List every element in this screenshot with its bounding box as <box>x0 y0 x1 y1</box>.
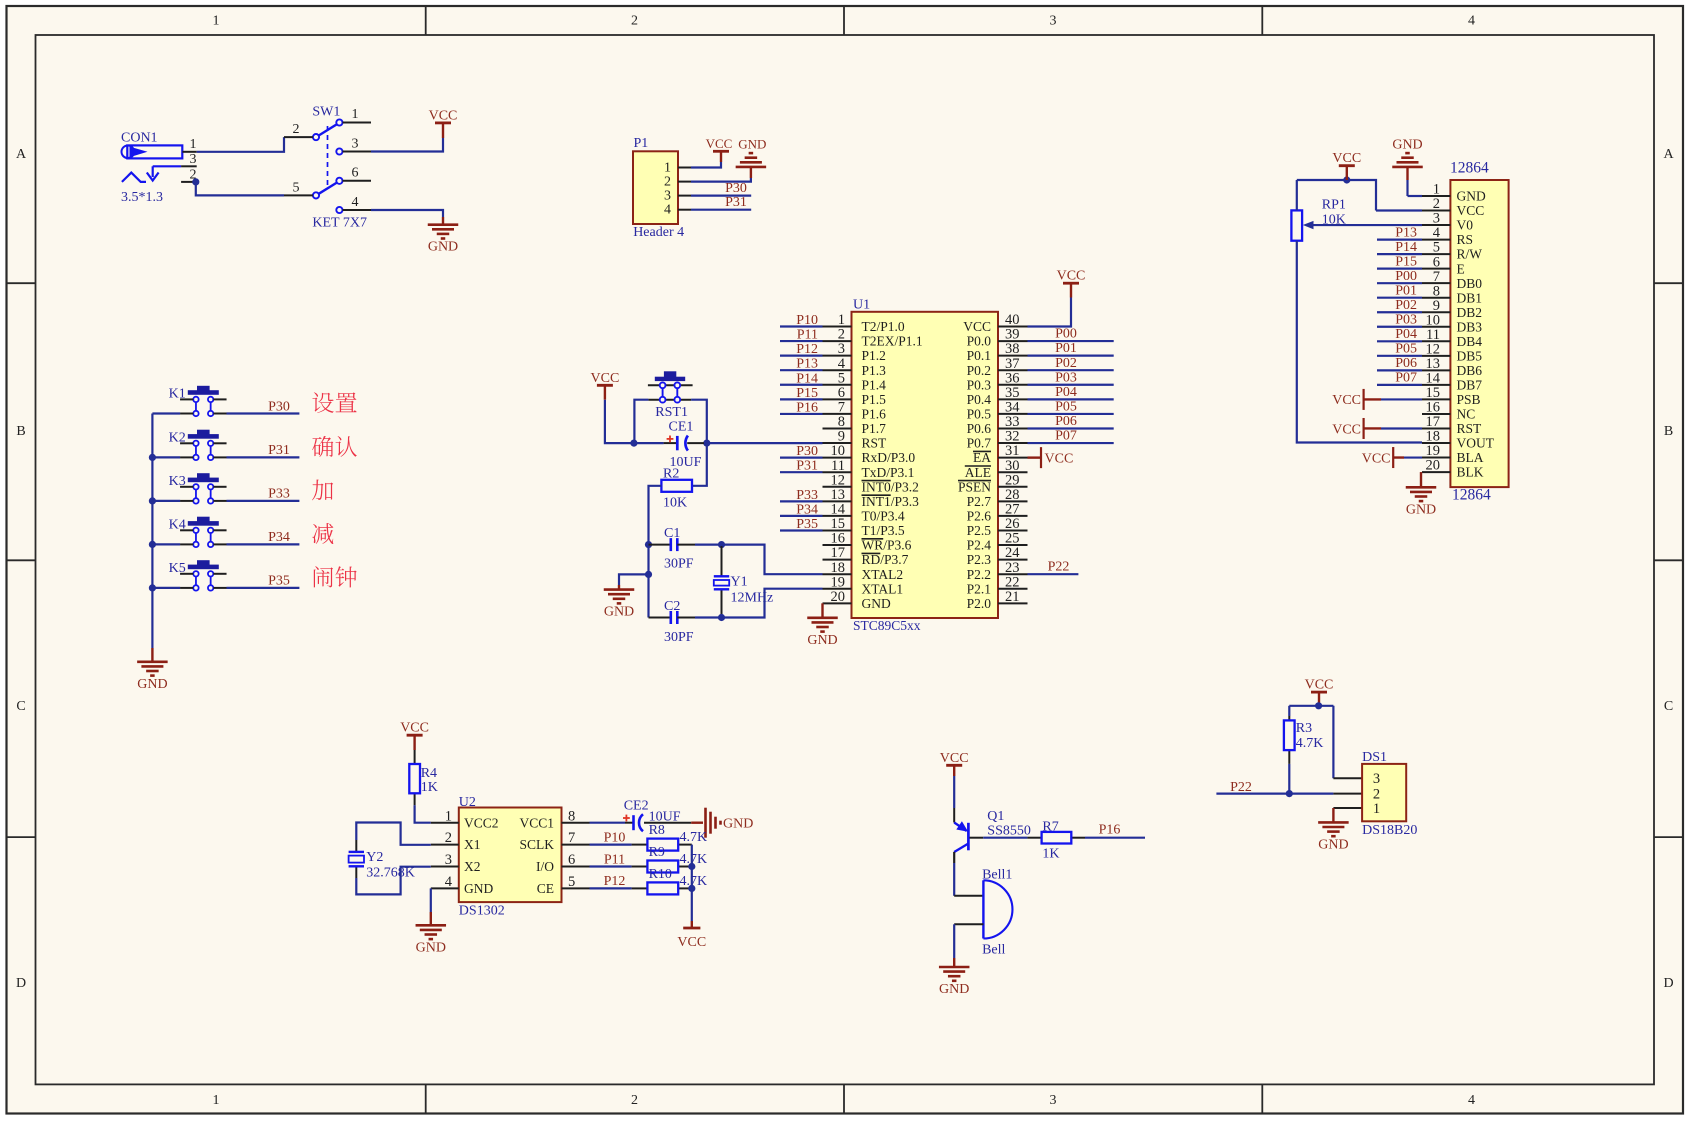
svg-text:SW1: SW1 <box>312 104 340 119</box>
Q1 collector wire <box>954 852 983 896</box>
12864 pin 14 DB7 <box>1422 370 1482 392</box>
wire K3 to ground bus <box>152 500 180 502</box>
svg-text:1K: 1K <box>421 780 438 795</box>
svg-text:2: 2 <box>664 175 671 190</box>
resistor R9 pins <box>632 866 692 868</box>
svg-text:P1.6: P1.6 <box>862 407 887 422</box>
svg-text:P04: P04 <box>1055 385 1077 400</box>
wire CON1 pin1 to SW1 pin2 <box>197 137 284 152</box>
svg-text:P10: P10 <box>604 830 626 845</box>
svg-text:1: 1 <box>1373 801 1380 817</box>
svg-text:3: 3 <box>445 852 452 868</box>
button K1 tact switch <box>180 386 227 416</box>
U1 pin 22 P2.1 <box>967 574 1028 596</box>
svg-text:GND: GND <box>862 596 891 611</box>
12864 pin 17 RST <box>1422 414 1482 436</box>
svg-text:Bell: Bell <box>982 943 1005 958</box>
wire P1 pin3 net P30 <box>691 195 751 197</box>
potentiometer RP1 10K body <box>1291 210 1302 240</box>
U1 pin 26 P2.5 <box>967 516 1028 538</box>
svg-text:20: 20 <box>831 589 846 605</box>
12864 pin 10 DB3 <box>1422 312 1482 334</box>
wire U1 pin 4 net P13 <box>780 369 823 371</box>
svg-text:P00: P00 <box>1395 269 1417 284</box>
function label 确认 (red) <box>312 436 357 457</box>
svg-text:P06: P06 <box>1055 414 1077 429</box>
svg-text:INT0/P3.2: INT0/P3.2 <box>862 479 919 494</box>
svg-text:12864: 12864 <box>1450 160 1489 177</box>
ground GND at 12864 pin 20 <box>1406 487 1437 517</box>
svg-text:P07: P07 <box>1395 371 1417 386</box>
svg-text:PSEN: PSEN <box>958 479 991 494</box>
svg-text:VCC1: VCC1 <box>519 815 554 830</box>
U1 pin 13 INT1/P3.3 <box>823 487 920 509</box>
junction XTAL1 node <box>718 614 725 621</box>
U1 pin 24 P2.3 <box>967 545 1028 567</box>
wire U2 net P11 to R9 <box>590 865 632 867</box>
U1 pin 6 P1.5 <box>823 385 887 407</box>
svg-text:P12: P12 <box>796 342 818 357</box>
svg-text:X1: X1 <box>464 837 481 852</box>
resistor R4 1K <box>409 764 420 793</box>
svg-text:T2EX/P1.1: T2EX/P1.1 <box>862 334 923 349</box>
svg-text:P03: P03 <box>1395 313 1417 328</box>
svg-text:T1/P3.5: T1/P3.5 <box>862 523 905 538</box>
wire 12864 pin 4 net P13 <box>1377 238 1422 240</box>
junction key ground bus <box>149 584 156 591</box>
connector 12864 LCD body <box>1450 180 1508 487</box>
wire XTAL2 node to U1 pin 18 <box>722 545 823 575</box>
SW1 pin 6 <box>343 166 372 181</box>
power VCC at RST1 <box>591 371 620 400</box>
U1 pin 5 P1.4 <box>823 370 887 392</box>
junction key ground bus <box>149 497 156 504</box>
svg-text:P12: P12 <box>604 874 626 889</box>
svg-text:P31: P31 <box>796 459 818 474</box>
svg-text:1: 1 <box>190 137 197 152</box>
wire K4 net P34 <box>227 543 300 545</box>
wire SW1 pin3 to VCC <box>371 138 443 152</box>
svg-text:VCC: VCC <box>1305 678 1334 693</box>
svg-text:ALE: ALE <box>965 465 991 480</box>
svg-text:P05: P05 <box>1395 342 1417 357</box>
ground GND at Bell1 <box>939 958 970 997</box>
button K2 tact switch <box>180 430 227 460</box>
svg-text:6: 6 <box>352 166 359 181</box>
resistor R10 pins <box>632 887 692 889</box>
svg-text:GND: GND <box>738 136 766 151</box>
svg-text:P2.6: P2.6 <box>967 509 992 524</box>
wire K2 to ground bus <box>152 456 180 458</box>
svg-text:RST1: RST1 <box>655 405 688 420</box>
U1 pin 29 PSEN <box>958 472 1028 494</box>
svg-text:P34: P34 <box>796 502 818 517</box>
wire U1 pin 13 net P33 <box>780 500 823 502</box>
svg-text:SCLK: SCLK <box>519 837 554 852</box>
wire U1 pin 6 net P15 <box>780 398 823 400</box>
U1 pin 10 RxD/P3.0 <box>823 443 916 465</box>
svg-text:P06: P06 <box>1395 356 1417 371</box>
svg-text:GND: GND <box>807 633 837 648</box>
wire R4 to U2 pin 1 <box>415 805 431 822</box>
svg-text:P2.0: P2.0 <box>967 596 992 611</box>
wire K1 to ground bus <box>152 412 180 414</box>
svg-text:P0.4: P0.4 <box>967 392 992 407</box>
svg-text:P30: P30 <box>796 444 818 459</box>
wire VCC down to RST node <box>605 400 634 443</box>
svg-text:4.7K: 4.7K <box>1296 736 1324 751</box>
wire VCC to Q1 emitter <box>953 776 955 808</box>
svg-text:10K: 10K <box>663 496 687 511</box>
ground GND at crystal caps <box>604 585 635 620</box>
svg-text:WR/P3.6: WR/P3.6 <box>862 538 912 553</box>
wire R2 to ground rail <box>649 486 662 541</box>
svg-text:DB2: DB2 <box>1457 305 1483 320</box>
capacitor C1 30PF <box>671 538 678 551</box>
svg-text:R/W: R/W <box>1457 247 1483 262</box>
ground GND at SW1 <box>428 217 459 255</box>
svg-text:RxD/P3.0: RxD/P3.0 <box>862 450 916 465</box>
svg-text:1: 1 <box>213 14 220 29</box>
crystal Y2 pins <box>355 840 357 878</box>
svg-text:KET 7X7: KET 7X7 <box>312 216 367 231</box>
junction key ground bus <box>149 541 156 548</box>
svg-text:B: B <box>16 424 25 439</box>
resistor R8 pins <box>632 844 692 846</box>
svg-text:C: C <box>16 699 25 714</box>
svg-text:RP1: RP1 <box>1322 198 1346 213</box>
resistor R10 4.7K <box>647 882 678 894</box>
svg-text:P2.1: P2.1 <box>967 581 991 596</box>
12864 pin 13 DB6 <box>1422 356 1482 378</box>
U1 pin 8 P1.7 <box>823 414 887 436</box>
wire C1 right lead <box>677 544 695 546</box>
svg-text:VOUT: VOUT <box>1457 436 1495 451</box>
svg-text:A: A <box>16 147 27 162</box>
wire C2 to XTAL1 node <box>695 616 722 618</box>
svg-text:7: 7 <box>568 830 575 846</box>
svg-text:T2/P1.0: T2/P1.0 <box>862 319 905 334</box>
U1 pin 33 P0.6 <box>967 414 1028 436</box>
wire net P22 to DS1 pin 2 <box>1216 792 1333 794</box>
U1 pin 20 GND <box>823 589 891 611</box>
svg-text:P0.5: P0.5 <box>967 407 992 422</box>
wire U2 pin 4 to GND <box>430 888 432 912</box>
power VCC at 12864 pin 19 BLA <box>1362 447 1404 468</box>
svg-text:3: 3 <box>1050 14 1057 29</box>
12864 pin 6 E <box>1422 254 1465 276</box>
wire to R3 top <box>1288 706 1290 716</box>
svg-text:VCC: VCC <box>1332 393 1361 408</box>
SW1 pin 3 <box>343 137 372 152</box>
wire RST node to CE1 <box>634 442 664 444</box>
svg-text:DB7: DB7 <box>1457 377 1483 392</box>
wire U1 pin 38 net P01 <box>1028 355 1114 357</box>
svg-text:VCC: VCC <box>591 371 620 386</box>
wire 12864 pin 9 net P02 <box>1377 311 1422 313</box>
wire P1 pin2 to GND <box>691 178 751 182</box>
wire U1 pin 15 net P35 <box>780 529 823 531</box>
svg-text:P0.3: P0.3 <box>967 377 992 392</box>
U2 pin 8 VCC1 <box>519 808 589 830</box>
wire K2 net P31 <box>227 456 300 458</box>
junction pull-up bus R10 <box>688 885 695 892</box>
U1 pin 3 P1.2 <box>823 341 886 363</box>
svg-text:1: 1 <box>213 1093 220 1108</box>
power VCC at Q1 <box>940 751 969 776</box>
svg-text:GND: GND <box>1406 502 1436 517</box>
wire 12864 pin1 to GND <box>1408 195 1423 197</box>
svg-text:P1.3: P1.3 <box>862 363 887 378</box>
svg-text:1: 1 <box>352 107 359 122</box>
svg-text:12864: 12864 <box>1452 487 1491 504</box>
resistor R3 4.7K <box>1284 720 1295 750</box>
svg-text:B: B <box>1664 424 1673 439</box>
connector P1 Header 4 body <box>633 151 678 224</box>
CON1 pin 2 <box>181 167 196 182</box>
power VCC at DS1 <box>1305 678 1334 706</box>
CON1 pin 3 jack switch contact <box>122 152 197 182</box>
12864 pin 1 GND <box>1422 182 1486 204</box>
button RST1 tact switch <box>648 371 693 402</box>
wire 12864 pin2 <box>1376 209 1422 211</box>
svg-text:P33: P33 <box>268 487 290 502</box>
P1 pin 1 <box>664 161 691 176</box>
U2 pin 3 X2 <box>431 852 481 874</box>
wire U1 pin 11 net P31 <box>780 471 823 473</box>
svg-text:TxD/P3.1: TxD/P3.1 <box>862 465 915 480</box>
wire ground rail to GND symbol <box>619 574 649 585</box>
svg-text:P2.5: P2.5 <box>967 523 992 538</box>
svg-text:P31: P31 <box>268 443 290 458</box>
wire 12864 pin 7 net P00 <box>1377 282 1422 284</box>
svg-text:T0/P3.4: T0/P3.4 <box>862 509 905 524</box>
resistor R7 1K <box>1042 832 1072 844</box>
wire K5 net P35 <box>227 587 300 589</box>
svg-text:1K: 1K <box>1042 847 1059 862</box>
wire Y2 top to U2 X1 <box>356 823 431 845</box>
U2 pin 1 VCC2 <box>431 808 499 830</box>
capacitor CE1 10UF polarized <box>664 436 704 451</box>
resistor R7 pins <box>1027 837 1085 839</box>
svg-text:VCC: VCC <box>1045 451 1074 466</box>
U1 pin 30 ALE <box>965 458 1028 480</box>
svg-text:Y2: Y2 <box>366 850 383 865</box>
svg-text:CE1: CE1 <box>669 420 694 435</box>
svg-text:GND: GND <box>1457 189 1486 204</box>
svg-text:P2.7: P2.7 <box>967 494 992 509</box>
wire K4 to ground bus <box>152 543 180 545</box>
svg-text:21: 21 <box>1005 589 1020 605</box>
wire RST1 left leg <box>634 400 648 443</box>
svg-text:VCC: VCC <box>1457 203 1485 218</box>
P1 pin 2 <box>664 175 691 190</box>
wire VCC to DS1 pin3 <box>1332 706 1334 778</box>
power VCC at 12864 <box>1332 151 1361 180</box>
junction RST node right <box>703 440 710 447</box>
wire ground bus for keys <box>151 414 153 649</box>
ground GND at U2 <box>416 925 447 955</box>
svg-text:SS8550: SS8550 <box>987 824 1031 839</box>
svg-text:P2.2: P2.2 <box>967 567 991 582</box>
svg-text:RD/P3.7: RD/P3.7 <box>862 552 909 567</box>
svg-text:2: 2 <box>445 830 452 846</box>
wire 12864 pin2 to VCC rail <box>1297 180 1376 211</box>
U2 pin 6 I/O <box>536 852 590 874</box>
wire DS1 pin 1 stub <box>1333 807 1362 809</box>
svg-text:P1.4: P1.4 <box>862 377 887 392</box>
U1 pin 11 TxD/P3.1 <box>823 458 915 480</box>
svg-text:5: 5 <box>293 180 300 195</box>
wire U1 pin 3 net P12 <box>780 355 823 357</box>
svg-text:I/O: I/O <box>536 859 554 874</box>
wire CON1 pin2 to SW1 pin5 <box>196 182 284 196</box>
U1 pin 16 WR/P3.6 <box>823 531 912 553</box>
button K5 tact switch <box>180 560 227 590</box>
Q1 emitter pin <box>953 808 955 823</box>
ground GND at 12864 pin 1 (inverted) <box>1392 138 1423 167</box>
ground GND at CE2 (sideways) <box>706 808 754 838</box>
svg-text:CON1: CON1 <box>121 131 158 146</box>
svg-text:VCC: VCC <box>963 319 991 334</box>
svg-text:R3: R3 <box>1296 721 1312 736</box>
ground GND at P1 (inverted) <box>736 153 767 178</box>
U1 pin 31 EA <box>973 443 1028 465</box>
svg-text:XTAL1: XTAL1 <box>862 581 904 596</box>
wire 12864 pin 11 net P04 <box>1377 340 1422 342</box>
svg-text:A: A <box>1663 147 1674 162</box>
resistor R4 pins <box>414 750 416 805</box>
wire U1 pin40 to VCC <box>1028 298 1072 327</box>
svg-text:PSB: PSB <box>1457 392 1481 407</box>
svg-text:12MHz: 12MHz <box>731 591 774 606</box>
12864 pin 12 DB5 <box>1422 341 1482 363</box>
U1 pin 37 P0.2 <box>967 356 1028 378</box>
svg-text:8: 8 <box>568 808 575 824</box>
buzzer Bell1 body <box>983 880 1012 938</box>
wire U1 pin 14 net P34 <box>780 515 823 517</box>
wire 12864 pin 14 net P07 <box>1377 384 1422 386</box>
svg-text:Y1: Y1 <box>731 575 748 590</box>
12864 pin 15 PSB <box>1422 385 1481 407</box>
wire U2 net P12 to R10 <box>590 887 632 889</box>
svg-text:VCC: VCC <box>940 751 969 766</box>
wire pull-up bus to VCC <box>691 845 693 921</box>
junction VCC rail at 12864 <box>1343 176 1350 183</box>
svg-text:DB5: DB5 <box>1457 348 1483 363</box>
svg-text:2: 2 <box>631 1093 638 1108</box>
svg-text:RS: RS <box>1457 232 1474 247</box>
power VCC at 12864 pin 17 RST <box>1332 418 1381 439</box>
svg-text:P2.4: P2.4 <box>967 538 992 553</box>
svg-text:P0.0: P0.0 <box>967 334 992 349</box>
12864 pin 7 DB0 <box>1422 269 1482 291</box>
svg-text:P01: P01 <box>1395 284 1417 299</box>
power VCC at SW1 <box>429 108 458 138</box>
svg-text:3: 3 <box>352 137 359 152</box>
crystal Y1 pins <box>721 546 723 614</box>
12864 pin 18 VOUT <box>1422 429 1495 451</box>
U1 pin 18 XTAL2 <box>823 560 904 582</box>
ground GND for keys <box>137 648 168 692</box>
CE2 left lead <box>625 822 634 824</box>
power VCC at U1 pin 31 <box>1028 447 1074 468</box>
svg-text:P30: P30 <box>268 399 290 414</box>
wire K1 net P30 <box>227 412 300 414</box>
switch SW1 DPDT body <box>313 119 343 213</box>
svg-text:4: 4 <box>352 195 359 210</box>
U2 pin 7 SCLK <box>519 830 589 852</box>
svg-text:GND: GND <box>1318 837 1348 852</box>
wire C2 right lead <box>677 617 695 619</box>
U1 pin 28 P2.7 <box>967 487 1028 509</box>
svg-text:VCC2: VCC2 <box>464 815 499 830</box>
U2 pin 4 GND <box>431 874 494 896</box>
junction RST node left <box>630 440 637 447</box>
svg-text:D: D <box>1663 976 1673 991</box>
svg-text:P22: P22 <box>1230 780 1252 795</box>
U1 pin 25 P2.4 <box>967 531 1028 553</box>
U1 pin 23 P2.2 <box>967 560 1028 582</box>
wire U1 pin 35 net P04 <box>1028 398 1114 400</box>
svg-text:2: 2 <box>631 14 638 29</box>
SW1 pin 1 <box>343 107 372 123</box>
junction key ground bus <box>149 454 156 461</box>
wire U1 pin 5 net P14 <box>780 384 823 386</box>
U1 pin 32 P0.7 <box>967 429 1028 451</box>
svg-text:GND: GND <box>604 605 634 620</box>
12864 pin 8 DB1 <box>1422 283 1482 305</box>
wire U1 pin 36 net P03 <box>1028 384 1114 386</box>
svg-text:P01: P01 <box>1055 341 1077 356</box>
wire U1 pin 1 net P10 <box>780 325 823 327</box>
U2 pin 2 X1 <box>431 830 481 852</box>
wire DS1 pin 2 stub <box>1333 793 1362 795</box>
svg-text:GND: GND <box>1392 138 1422 153</box>
wire R7 net P16 <box>1085 837 1145 839</box>
wire CE1 to U1 RST pin 9 <box>704 442 823 444</box>
svg-text:P1.5: P1.5 <box>862 392 887 407</box>
RP1 wiper arrow to V0 <box>1303 221 1422 229</box>
svg-text:30PF: 30PF <box>664 630 694 645</box>
svg-text:VCC: VCC <box>400 721 429 736</box>
wire P1 pin1 to VCC <box>691 162 721 168</box>
wire DS1 pin1 GND stem <box>1332 808 1334 822</box>
svg-text:VCC: VCC <box>1332 422 1361 437</box>
svg-text:3: 3 <box>1373 771 1380 787</box>
svg-text:P0.6: P0.6 <box>967 421 992 436</box>
function label 减 (red) <box>312 523 333 544</box>
svg-text:Header 4: Header 4 <box>633 225 684 240</box>
12864 pin 11 DB4 <box>1422 327 1482 349</box>
ground GND at DS1 <box>1318 822 1349 852</box>
resistor R9 4.7K <box>647 861 678 873</box>
wire U1 pin 32 net P07 <box>1028 442 1114 444</box>
svg-text:P00: P00 <box>1055 327 1077 342</box>
svg-text:P02: P02 <box>1395 298 1417 313</box>
wire 12864 pin15 <box>1381 398 1422 400</box>
wire U1 pin 33 net P06 <box>1028 427 1114 429</box>
svg-text:3: 3 <box>664 189 671 204</box>
power VCC at U1 pin 40 <box>1057 269 1086 298</box>
connector CON1 power jack 3.5*1.3 <box>122 145 183 158</box>
svg-text:P30: P30 <box>725 181 747 196</box>
svg-text:CE2: CE2 <box>624 799 649 814</box>
svg-text:P35: P35 <box>268 574 290 589</box>
wire 12864 pin20 GND stem <box>1420 472 1422 487</box>
transistor Q1 SS8550 PNP <box>954 821 968 852</box>
wire U1 pin 2 net P11 <box>780 340 823 342</box>
